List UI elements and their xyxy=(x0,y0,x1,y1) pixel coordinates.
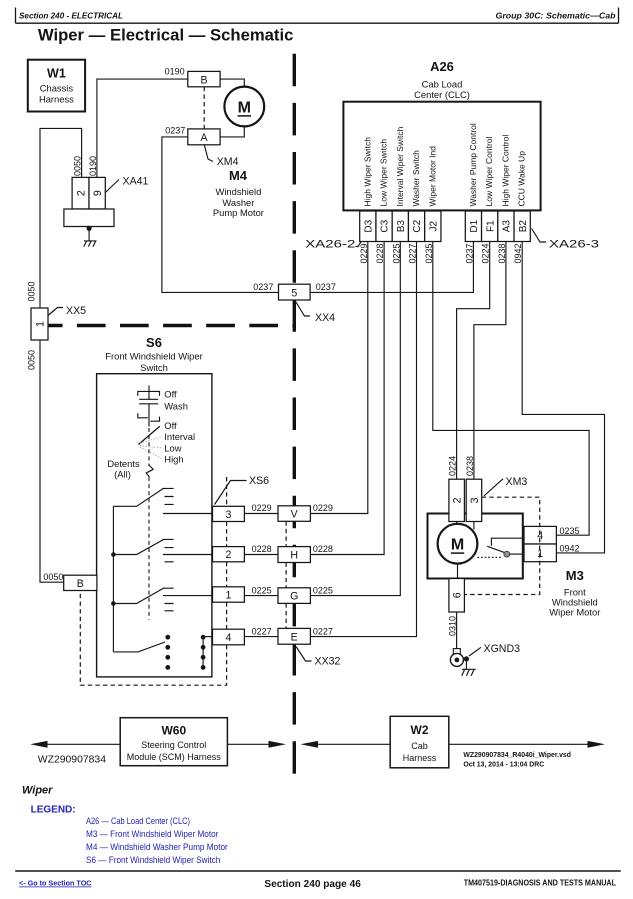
wire 0225 B3 to G xyxy=(310,242,400,596)
park switch lever xyxy=(487,546,504,552)
svg-text:0238: 0238 xyxy=(465,456,475,476)
svg-text:Pump Motor: Pump Motor xyxy=(213,207,264,218)
wire 0228 C3 to H xyxy=(310,242,384,555)
wire label 0190 xyxy=(165,67,185,77)
svg-text:0942: 0942 xyxy=(560,544,580,554)
svg-text:Chassis: Chassis xyxy=(40,83,74,94)
legend entry M4 xyxy=(86,842,228,852)
svg-text:XA41: XA41 xyxy=(123,176,149,188)
connector XA26-3 pin A3 xyxy=(498,211,514,242)
connector XM4 leader xyxy=(204,145,213,162)
connector XM4 dashed link xyxy=(203,87,205,129)
wire label 0050 above XX5 (rotated) xyxy=(27,281,37,301)
connector XX32 pin H xyxy=(278,547,310,563)
svg-text:Windshield: Windshield xyxy=(215,186,261,197)
connector M3 pin 4 xyxy=(524,526,556,544)
contact group for pin 4 xyxy=(113,642,165,652)
svg-text:W2: W2 xyxy=(411,723,429,737)
svg-text:6: 6 xyxy=(452,592,464,598)
svg-text:Wiper Motor Ind: Wiper Motor Ind xyxy=(427,146,437,207)
svg-text:0050: 0050 xyxy=(73,156,83,176)
connector XM3 label xyxy=(506,476,528,488)
svg-text:C2: C2 xyxy=(412,219,423,232)
connector XA26-3 pin B2 xyxy=(514,211,530,242)
connector XA26-3 leader xyxy=(532,229,546,243)
harness W1 box xyxy=(28,60,85,112)
svg-text:0228: 0228 xyxy=(252,544,272,554)
connector XX4 leader xyxy=(295,301,310,317)
svg-text:B: B xyxy=(200,75,207,87)
svg-text:Interval Wiper Switch: Interval Wiper Switch xyxy=(395,126,405,206)
contact dots left column xyxy=(165,635,170,670)
A26 signal label Low Wiper Switch xyxy=(379,139,389,207)
connector XS6 pin B xyxy=(64,575,97,590)
footer link xyxy=(19,879,92,888)
wire B to motor M4 xyxy=(220,79,244,87)
connector XM4 pin A xyxy=(188,129,220,145)
svg-text:Switch: Switch xyxy=(140,362,168,373)
connector XA41 leader xyxy=(105,180,119,193)
svg-text:Cab: Cab xyxy=(411,741,428,751)
svg-text:0050: 0050 xyxy=(27,281,37,301)
connector XS6 pin 3 xyxy=(213,506,245,521)
connector XA26-2 pin C3 xyxy=(376,211,392,242)
wire label 0228 under C3 (rotated) xyxy=(375,243,385,263)
junction dot xyxy=(464,656,469,661)
motor stub to pin 6 xyxy=(457,564,459,579)
svg-text:XA26-2: XA26-2 xyxy=(305,239,355,251)
connector XS6 pin 2 xyxy=(213,547,245,562)
footer manual label xyxy=(464,879,616,888)
rotary label Low xyxy=(164,443,181,454)
svg-text:2: 2 xyxy=(75,190,87,196)
wire label 0237 left of node 5 xyxy=(253,282,273,292)
connector XS6 label xyxy=(249,475,269,487)
mechanical link dotted xyxy=(478,556,503,558)
A26 signal label Washer Pump Control xyxy=(468,123,478,206)
A26 signal label Wiper Motor Ind xyxy=(427,146,437,207)
connector XM3 leader xyxy=(484,479,503,496)
svg-text:J2: J2 xyxy=(428,220,439,231)
ground symbol xyxy=(462,659,476,676)
svg-text:High Wiper Switch: High Wiper Switch xyxy=(362,137,372,207)
ground lug XGND3 xyxy=(450,649,463,667)
svg-text:CCU Wake Up: CCU Wake Up xyxy=(517,151,527,207)
wire to pin 1 xyxy=(163,595,213,597)
detent spring squiggle xyxy=(146,466,153,477)
svg-text:E: E xyxy=(291,631,298,643)
wire label 0227 right xyxy=(313,626,333,636)
svg-text:M: M xyxy=(238,100,251,117)
park switch pivot xyxy=(504,551,510,557)
label WZ290907834 xyxy=(38,755,107,766)
wire label 0310 (rotated) xyxy=(447,616,457,636)
svg-text:B: B xyxy=(77,578,84,590)
section label Wiper xyxy=(22,785,53,797)
A26 signal label High Wiper Control xyxy=(500,135,510,207)
rotary position pointer lines xyxy=(140,437,163,460)
svg-text:0050: 0050 xyxy=(27,350,37,370)
svg-text:S6: S6 xyxy=(146,335,162,350)
connector XA41 pin 2 xyxy=(72,177,89,209)
svg-text:M: M xyxy=(451,537,464,554)
wire label 0050 below XX5 (rotated) xyxy=(27,350,37,370)
svg-text:0050: 0050 xyxy=(43,572,63,582)
wire 0237 node 5 to A26 D1 xyxy=(310,242,473,293)
svg-text:XX5: XX5 xyxy=(66,305,86,317)
connector M3 pin 1 xyxy=(524,544,556,562)
svg-text:C3: C3 xyxy=(380,219,391,232)
wire label 0225 right xyxy=(313,585,333,595)
svg-text:Off: Off xyxy=(164,389,177,400)
ground at XA41 xyxy=(84,228,97,246)
svg-text:WZ290907834_R4040i_Wiper.vsd: WZ290907834_R4040i_Wiper.vsd xyxy=(463,752,571,759)
motor M3 box xyxy=(428,514,523,579)
svg-text:0237: 0237 xyxy=(165,125,185,135)
connector XA41 label xyxy=(123,176,149,188)
harness W2 box xyxy=(390,716,449,768)
wire 0227 pin 4 to E xyxy=(244,636,278,638)
svg-text:Wiper — Electrical — Schematic: Wiper — Electrical — Schematic xyxy=(38,25,294,44)
svg-text:W60: W60 xyxy=(161,724,186,738)
svg-text:0310: 0310 xyxy=(447,616,457,636)
svg-text:Module (SCM) Harness: Module (SCM) Harness xyxy=(127,752,222,762)
svg-text:Harness: Harness xyxy=(403,753,437,763)
svg-text:Washer Switch: Washer Switch xyxy=(411,150,421,207)
connector XX5 pin 1 xyxy=(31,308,48,340)
connector XX32 pin G xyxy=(278,588,310,604)
svg-text:0190: 0190 xyxy=(165,67,185,77)
wire label 0225 xyxy=(252,585,272,595)
wire 0229 D3 to V xyxy=(310,242,367,514)
svg-text:Section 240 page 46: Section 240 page 46 xyxy=(264,879,361,890)
connector XGND3 label xyxy=(484,643,521,655)
rotary switch lever xyxy=(139,426,160,444)
wire 0238 A3 to XM3 pin 3 xyxy=(474,242,506,480)
svg-text:XM3: XM3 xyxy=(506,476,528,488)
W60 right arrow xyxy=(227,741,286,748)
svg-text:0227: 0227 xyxy=(313,626,333,636)
wire label 0229 under D3 (rotated) xyxy=(359,243,369,263)
svg-text:0229: 0229 xyxy=(252,503,272,513)
connector XX32 pin E xyxy=(278,628,310,644)
connector XGND3 leader xyxy=(469,647,481,656)
wire label 0237 right of node 5 xyxy=(316,282,336,292)
wire 0310 to ground xyxy=(456,612,458,649)
connector XM3 pin 2 xyxy=(449,479,465,521)
svg-text:0237: 0237 xyxy=(464,243,474,263)
svg-text:Oct 13, 2014 - 13:04 DRC: Oct 13, 2014 - 13:04 DRC xyxy=(463,762,544,769)
svg-text:W1: W1 xyxy=(47,67,66,81)
svg-text:Washer Pump Control: Washer Pump Control xyxy=(468,123,478,206)
wire to pin 2 xyxy=(163,554,213,556)
wire label 0238 under A3 (rotated) xyxy=(497,243,507,263)
component S6 label xyxy=(105,335,202,373)
wire 0942 B2 to M3 pin 1 xyxy=(522,242,604,553)
harness W60 box xyxy=(120,718,227,766)
svg-text:A26: A26 xyxy=(430,59,454,74)
svg-text:Steering Control: Steering Control xyxy=(141,740,206,750)
svg-text:0237: 0237 xyxy=(253,282,273,292)
wire 0050 from XX5 to S6 pin B xyxy=(40,340,64,582)
node 5 (connector XX4) xyxy=(279,284,311,300)
svg-text:B3: B3 xyxy=(396,220,407,233)
legend heading xyxy=(31,805,76,816)
svg-text:0225: 0225 xyxy=(252,585,272,595)
connector XS6 dashed outline xyxy=(80,477,226,685)
svg-text:Wash: Wash xyxy=(164,400,188,411)
W2 right arrow xyxy=(449,741,605,748)
park switch fixed contact to pin 4 xyxy=(491,538,524,546)
wire label 0228 xyxy=(252,544,272,554)
wire 0235 J2 to M3 pin 4 xyxy=(433,242,589,536)
wire 0224 F1 to XM3 pin 2 xyxy=(457,242,490,480)
svg-text:1: 1 xyxy=(34,321,46,327)
harness boundary dashed line (vertical) xyxy=(293,54,296,775)
connector XX32 label xyxy=(315,656,341,668)
svg-text:M4: M4 xyxy=(229,168,248,183)
footer page number xyxy=(264,879,361,890)
contact group for pin 1 xyxy=(113,588,173,611)
connector XA26-2 leader xyxy=(356,241,362,246)
svg-text:Section 240 - ELECTRICAL: Section 240 - ELECTRICAL xyxy=(19,12,123,21)
wash switch label Off xyxy=(164,389,177,400)
cab load center A26 box xyxy=(343,102,540,211)
switch S6 box xyxy=(97,374,212,677)
label Detents (All) xyxy=(107,458,140,479)
svg-text:0228: 0228 xyxy=(313,544,333,554)
svg-text:Low Wiper Switch: Low Wiper Switch xyxy=(379,139,389,207)
W2 left arrow xyxy=(301,741,391,748)
svg-text:Wiper Motor: Wiper Motor xyxy=(549,606,600,617)
svg-text:LEGEND:: LEGEND: xyxy=(31,805,76,816)
motor M3 xyxy=(438,524,478,564)
wire label 0942 under B2 (rotated) xyxy=(513,243,523,263)
contact dots right column xyxy=(201,635,206,670)
svg-text:M4 — Windshield Washer Pump Mo: M4 — Windshield Washer Pump Motor xyxy=(86,842,228,852)
svg-text:V: V xyxy=(291,509,299,521)
connector XM4 pin B xyxy=(188,71,220,86)
svg-text:Center (CLC): Center (CLC) xyxy=(414,89,470,100)
connector XS6 pin 1 xyxy=(213,587,245,602)
wire 0229 pin 3 to V xyxy=(244,513,278,515)
wire label 0235 under J2 (rotated) xyxy=(424,243,434,263)
connector XA26-3 pin D1 xyxy=(465,211,481,242)
wire label 0224 above XM3 pin 2 (rotated) xyxy=(448,456,458,476)
svg-text:Harness: Harness xyxy=(39,93,74,104)
wire label 0227 xyxy=(252,626,272,636)
connector XS6 leader xyxy=(215,481,247,505)
svg-text:0237: 0237 xyxy=(316,282,336,292)
wire 0225 pin 1 to G xyxy=(244,595,278,597)
svg-text:5: 5 xyxy=(291,287,297,299)
svg-text:Front Windshield Wiper: Front Windshield Wiper xyxy=(105,351,202,362)
wire label 0229 right xyxy=(313,503,333,513)
wire A to motor M4 xyxy=(220,126,244,137)
connector XS6 pin 4 xyxy=(213,629,245,645)
pin 3 stub xyxy=(473,522,475,530)
connector XX32 dashed link xyxy=(285,521,287,628)
connector XX4 label xyxy=(315,312,335,324)
wire 0237 from XM4 A to node 5 xyxy=(162,137,279,293)
wire label 0237 under D1 (rotated) xyxy=(464,243,474,263)
svg-text:A: A xyxy=(200,132,208,144)
wire label 0229 xyxy=(252,503,272,513)
svg-text:XX32: XX32 xyxy=(315,656,341,668)
svg-text:TM407519-DIAGNOSIS AND TESTS M: TM407519-DIAGNOSIS AND TESTS MANUAL xyxy=(464,879,616,888)
junction dot xyxy=(111,601,116,606)
A26 signal label CCU Wake Up xyxy=(517,151,527,207)
wash switch label Wash xyxy=(164,400,188,411)
wire label 0942 xyxy=(560,544,580,554)
wire to pin 3 xyxy=(163,513,213,515)
svg-text:M3 — Front Windshield Wiper Mo: M3 — Front Windshield Wiper Motor xyxy=(86,829,218,839)
component M3 label xyxy=(549,568,600,617)
svg-text:3: 3 xyxy=(226,509,232,521)
legend entry A26 xyxy=(86,816,190,826)
wire label 0228 right xyxy=(313,544,333,554)
connector XA41 pin 9 xyxy=(89,177,105,209)
wire to pin 4 xyxy=(203,636,212,638)
connector XX32 leader xyxy=(296,647,312,662)
connector XM3 pin 3 xyxy=(466,479,482,521)
svg-text:Off: Off xyxy=(164,420,177,431)
svg-text:3: 3 xyxy=(469,497,481,503)
drawing file label xyxy=(463,752,571,769)
svg-text:0229: 0229 xyxy=(313,503,333,513)
connector XA26-2 label xyxy=(305,239,355,251)
svg-text:XGND3: XGND3 xyxy=(484,643,521,655)
wire label 0237 xyxy=(165,125,185,135)
svg-text:WZ290907834: WZ290907834 xyxy=(38,755,107,766)
connector XX5 label xyxy=(66,305,86,317)
svg-text:9: 9 xyxy=(92,190,104,196)
svg-text:S6 — Front Windshield Wiper Sw: S6 — Front Windshield Wiper Switch xyxy=(86,855,220,865)
svg-text:Interval: Interval xyxy=(164,431,195,442)
svg-text:D3: D3 xyxy=(363,219,374,232)
svg-text:G: G xyxy=(290,591,298,603)
svg-text:XA26-3: XA26-3 xyxy=(549,239,599,251)
svg-text:Low Wiper Control: Low Wiper Control xyxy=(484,136,494,206)
A26 signal label Washer Switch xyxy=(411,150,421,207)
W60 left arrow xyxy=(30,741,120,748)
harness boundary dashed line (horizontal) xyxy=(48,324,296,328)
connector M3 pin 6 xyxy=(449,579,465,613)
svg-text:XM4: XM4 xyxy=(217,156,239,168)
page title xyxy=(38,25,294,44)
connector XA26-2 pin B3 xyxy=(392,211,408,242)
svg-text:High Wiper Control: High Wiper Control xyxy=(500,135,510,207)
component A26 label xyxy=(414,59,470,100)
svg-text:XS6: XS6 xyxy=(249,475,269,487)
svg-text:2: 2 xyxy=(226,549,232,561)
connector XA26-2 pin J2 xyxy=(425,211,441,242)
connector XX32 pin V xyxy=(278,506,310,522)
legend entry S6 xyxy=(86,855,220,865)
svg-text:Group 30C: Schematic—Cab: Group 30C: Schematic—Cab xyxy=(496,12,616,21)
svg-text:Low: Low xyxy=(164,443,181,454)
svg-text:High: High xyxy=(164,454,183,465)
connector XA41 shell xyxy=(64,209,114,227)
M3 dashed outline xyxy=(464,497,539,594)
svg-text:M3: M3 xyxy=(566,568,584,583)
wire label 0225 under B3 (rotated) xyxy=(391,243,401,263)
wire label 0224 under F1 (rotated) xyxy=(481,243,491,263)
wire label 0238 above XM3 pin 3 (rotated) xyxy=(465,456,475,476)
A26 signal label High Wiper Switch xyxy=(362,137,372,207)
svg-text:0235: 0235 xyxy=(560,526,580,536)
A26 signal label Interval Wiper Switch xyxy=(395,126,405,206)
svg-text:A26 — Cab Load Center (CLC): A26 — Cab Load Center (CLC) xyxy=(86,816,190,826)
connector XA26-2 pin D3 xyxy=(360,211,376,242)
pin 2 stub to motor xyxy=(456,522,458,524)
svg-text:0227: 0227 xyxy=(252,626,272,636)
wire 0227 C2 to E xyxy=(310,242,416,637)
svg-text:H: H xyxy=(290,550,298,562)
svg-text:0190: 0190 xyxy=(88,156,98,176)
component M4 label xyxy=(213,168,264,218)
connector XA26-3 pin F1 xyxy=(482,211,498,242)
wire 0190 from XM4 B to XA41 pin 9 xyxy=(97,79,188,177)
header rule xyxy=(16,8,619,24)
rotary shaft dashed line xyxy=(148,428,150,620)
switch common feed line xyxy=(112,506,114,652)
svg-text:Cab Load: Cab Load xyxy=(422,79,463,90)
contact group for pin 3 xyxy=(113,488,173,506)
wash switch symbol xyxy=(138,386,160,427)
wire 0050 from XA41 pin 2 to XX5 xyxy=(40,128,82,308)
svg-text:<- Go to Section TOC: <- Go to Section TOC xyxy=(19,879,92,888)
wire label 0235 xyxy=(560,526,580,536)
svg-text:0224: 0224 xyxy=(448,456,458,476)
connector XA26-2 pin C2 xyxy=(408,211,424,242)
svg-text:0225: 0225 xyxy=(313,585,333,595)
footer rule xyxy=(15,870,621,872)
wire label 0190 (rotated) xyxy=(88,156,98,176)
connector XA26-3 label xyxy=(549,239,599,251)
svg-text:Wiper: Wiper xyxy=(22,785,53,797)
svg-text:B2: B2 xyxy=(518,220,529,233)
svg-text:F1: F1 xyxy=(485,220,496,232)
rotary label Interval xyxy=(164,431,195,442)
svg-text:2: 2 xyxy=(452,497,464,503)
rotary label High xyxy=(164,454,183,465)
junction dot xyxy=(87,226,92,231)
svg-text:XX4: XX4 xyxy=(315,312,335,324)
park switch wire to pin 1 xyxy=(510,553,524,555)
A26 signal label Low Wiper Control xyxy=(484,136,494,206)
wire label 0050 at pin B xyxy=(43,572,63,582)
header left text xyxy=(19,12,123,21)
contact group for pin 2 xyxy=(113,539,173,561)
svg-text:1: 1 xyxy=(226,590,232,602)
wire label 0227 under C2 (rotated) xyxy=(408,243,418,263)
connector XM4 label xyxy=(217,156,239,168)
wire 0228 pin 2 to H xyxy=(244,554,278,556)
svg-text:D1: D1 xyxy=(469,219,480,232)
header right text xyxy=(496,12,616,21)
wire label 0050 (rotated) xyxy=(73,156,83,176)
rotary label Off xyxy=(164,420,177,431)
legend entry M3 xyxy=(86,829,218,839)
connector XX5 leader xyxy=(48,308,63,316)
svg-text:(All): (All) xyxy=(114,468,131,479)
svg-text:4: 4 xyxy=(226,632,232,644)
motor M4 xyxy=(224,87,264,127)
junction dot xyxy=(111,552,116,557)
svg-text:A3: A3 xyxy=(502,220,513,233)
